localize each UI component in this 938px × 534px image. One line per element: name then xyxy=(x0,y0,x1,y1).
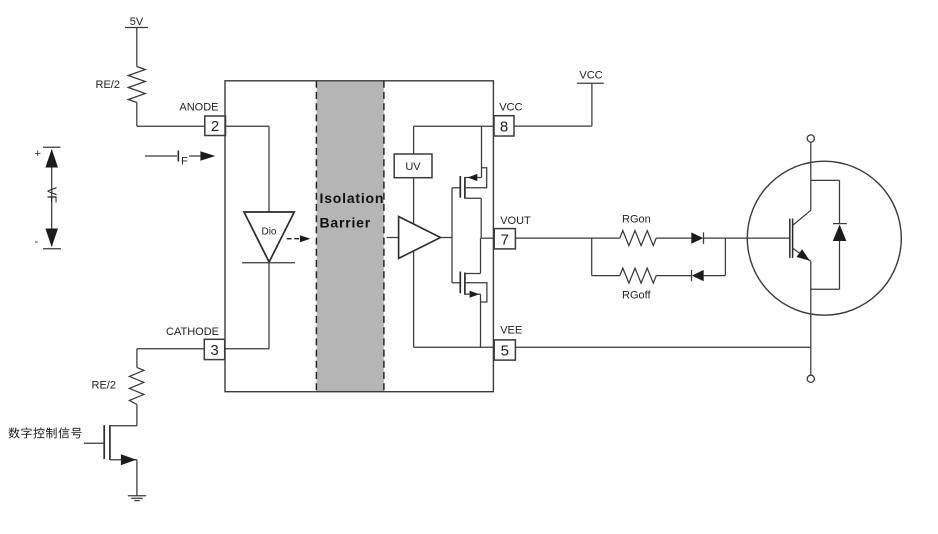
svg-text:UV: UV xyxy=(405,161,421,173)
svg-text:Barrier: Barrier xyxy=(320,215,372,231)
svg-text:CATHODE: CATHODE xyxy=(166,326,219,338)
svg-text:RE/2: RE/2 xyxy=(92,380,116,392)
svg-text:F: F xyxy=(181,156,188,168)
svg-text:RGon: RGon xyxy=(622,214,651,226)
svg-text:-: - xyxy=(35,236,39,248)
svg-text:ANODE: ANODE xyxy=(179,102,218,114)
svg-text:RE/2: RE/2 xyxy=(96,79,120,91)
svg-text:VCC: VCC xyxy=(579,70,602,82)
svg-text:I: I xyxy=(176,149,180,166)
svg-text:Dio: Dio xyxy=(261,227,276,238)
svg-text:VF: VF xyxy=(45,187,59,203)
svg-text:VOUT: VOUT xyxy=(500,215,531,227)
svg-text:Isolation: Isolation xyxy=(320,190,385,206)
svg-text:VCC: VCC xyxy=(499,102,522,114)
svg-text:5V: 5V xyxy=(130,16,144,28)
svg-text:2: 2 xyxy=(211,118,219,135)
svg-text:+: + xyxy=(35,148,41,160)
svg-text:5: 5 xyxy=(501,343,509,360)
svg-text:VEE: VEE xyxy=(500,325,522,337)
svg-text:8: 8 xyxy=(500,119,508,136)
svg-text:3: 3 xyxy=(210,342,218,359)
svg-text:RGoff: RGoff xyxy=(622,290,651,302)
svg-text:7: 7 xyxy=(501,231,509,248)
